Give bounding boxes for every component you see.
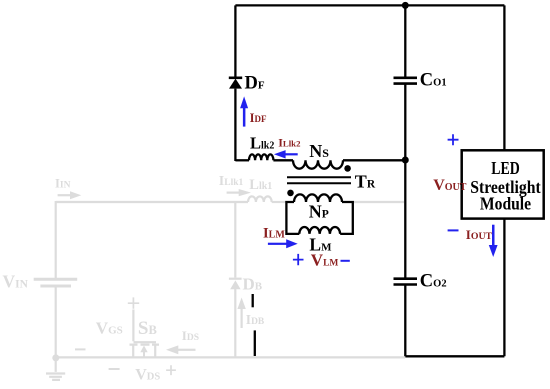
- transformer core TR: [287, 177, 351, 183]
- wire: gray bottom rail: [56, 356, 405, 358]
- svg-text:ILlk2: ILlk2: [278, 135, 301, 149]
- phase dot NS: [344, 165, 351, 172]
- arrow IDS (gray, left): [166, 345, 196, 354]
- wire: DB branch vertical: [234, 202, 236, 357]
- junction node NS-right: [402, 157, 409, 164]
- arrow ILM (blue, right): [268, 239, 298, 248]
- black bar upper (near DB): [252, 294, 254, 307]
- wire: Llk1 to NP loop: [272, 201, 286, 203]
- plus VOUT: [448, 134, 459, 145]
- SB body arrowhead: [140, 346, 147, 353]
- minus VLM: [341, 260, 350, 262]
- arrow ILlk1 (gray, right): [227, 189, 251, 196]
- wire: NS to right rail: [343, 159, 406, 161]
- minus VGS: [75, 348, 86, 350]
- wire: gray left vertical below battery: [55, 288, 57, 358]
- arrow IDB (gray, up): [237, 298, 245, 329]
- wire: right rail vertical: [404, 5, 406, 356]
- winding NS: [293, 160, 343, 168]
- wire: secondary horizontal to Llk2: [235, 159, 249, 161]
- arrow IIN (gray, right): [58, 191, 82, 199]
- inductor LM: [299, 227, 340, 234]
- plus VLM: [293, 254, 304, 265]
- plus VGS: [128, 297, 139, 308]
- ground: [46, 357, 65, 380]
- wire: gray top rail VIN to Llk1: [56, 201, 248, 203]
- SB body arrow shaft: [143, 350, 145, 357]
- wire: left vertical (DF branch) lower: [234, 89, 236, 161]
- arrow IDF (blue, up): [240, 96, 248, 126]
- minus VOUT: [448, 229, 459, 231]
- svg-text:Module: Module: [480, 194, 531, 214]
- wire: bottom rail (black): [405, 355, 504, 357]
- arrow ILlk2 (blue, left): [274, 150, 298, 158]
- arrow IOUT (blue, down): [489, 225, 498, 257]
- wire: gray NP-loop right to output rail: [353, 201, 404, 203]
- junction dot gray (VIN bottom / ground): [52, 354, 59, 361]
- LED Streetlight Module box: [462, 150, 544, 218]
- wire: left vertical (DF branch) upper: [234, 5, 236, 77]
- wire: top rail: [235, 4, 504, 6]
- battery VIN plates: [34, 278, 77, 281]
- winding NP and magnetizing loop: [286, 202, 299, 234]
- wire: gray left vertical above battery: [55, 201, 57, 278]
- wire: far right vertical lower: [503, 219, 505, 357]
- capacitor CO1: [394, 78, 418, 84]
- junction node top: [402, 2, 409, 9]
- minus VDS: [109, 368, 120, 370]
- inductor Llk2: [249, 154, 273, 160]
- wire: far right vertical upper: [503, 5, 505, 151]
- diode DF: [229, 79, 242, 89]
- wire: Llk2 to NS: [273, 159, 293, 161]
- svg-text:IDF: IDF: [250, 111, 267, 125]
- inductor Llk1: [248, 196, 272, 202]
- diode DB: [229, 278, 242, 290]
- black bar lower (near DB): [254, 330, 256, 356]
- plus VDS: [166, 365, 176, 375]
- capacitor CO2: [394, 279, 418, 285]
- phase dot NP: [287, 190, 294, 197]
- transistor SB gate and channel: [130, 310, 160, 358]
- svg-text:LED: LED: [491, 158, 520, 178]
